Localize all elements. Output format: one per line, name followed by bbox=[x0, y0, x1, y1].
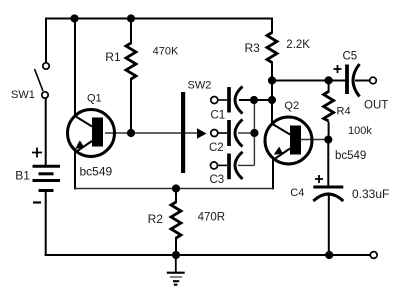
svg-text:R2: R2 bbox=[148, 212, 164, 226]
svg-text:470R: 470R bbox=[198, 212, 226, 224]
svg-text:Q1: Q1 bbox=[87, 93, 102, 105]
svg-text:R4: R4 bbox=[337, 105, 351, 117]
svg-text:C2: C2 bbox=[209, 142, 224, 154]
svg-text:OUT: OUT bbox=[364, 99, 388, 111]
svg-text:C5: C5 bbox=[343, 51, 358, 63]
svg-text:C4: C4 bbox=[290, 187, 304, 199]
svg-text:2.2K: 2.2K bbox=[286, 39, 310, 51]
svg-text:R3: R3 bbox=[245, 41, 261, 55]
svg-text:R1: R1 bbox=[105, 50, 121, 64]
svg-text:SW2: SW2 bbox=[188, 79, 212, 91]
svg-text:470K: 470K bbox=[153, 46, 179, 58]
svg-text:0.33uF: 0.33uF bbox=[352, 187, 389, 201]
svg-text:bc549: bc549 bbox=[335, 150, 366, 162]
svg-text:bc549: bc549 bbox=[80, 165, 113, 179]
svg-text:C3: C3 bbox=[210, 174, 225, 186]
svg-text:B1: B1 bbox=[15, 168, 30, 182]
svg-text:100k: 100k bbox=[348, 125, 372, 137]
svg-text:SW1: SW1 bbox=[11, 89, 35, 101]
svg-text:C1: C1 bbox=[211, 110, 226, 122]
svg-text:Q2: Q2 bbox=[284, 100, 299, 112]
